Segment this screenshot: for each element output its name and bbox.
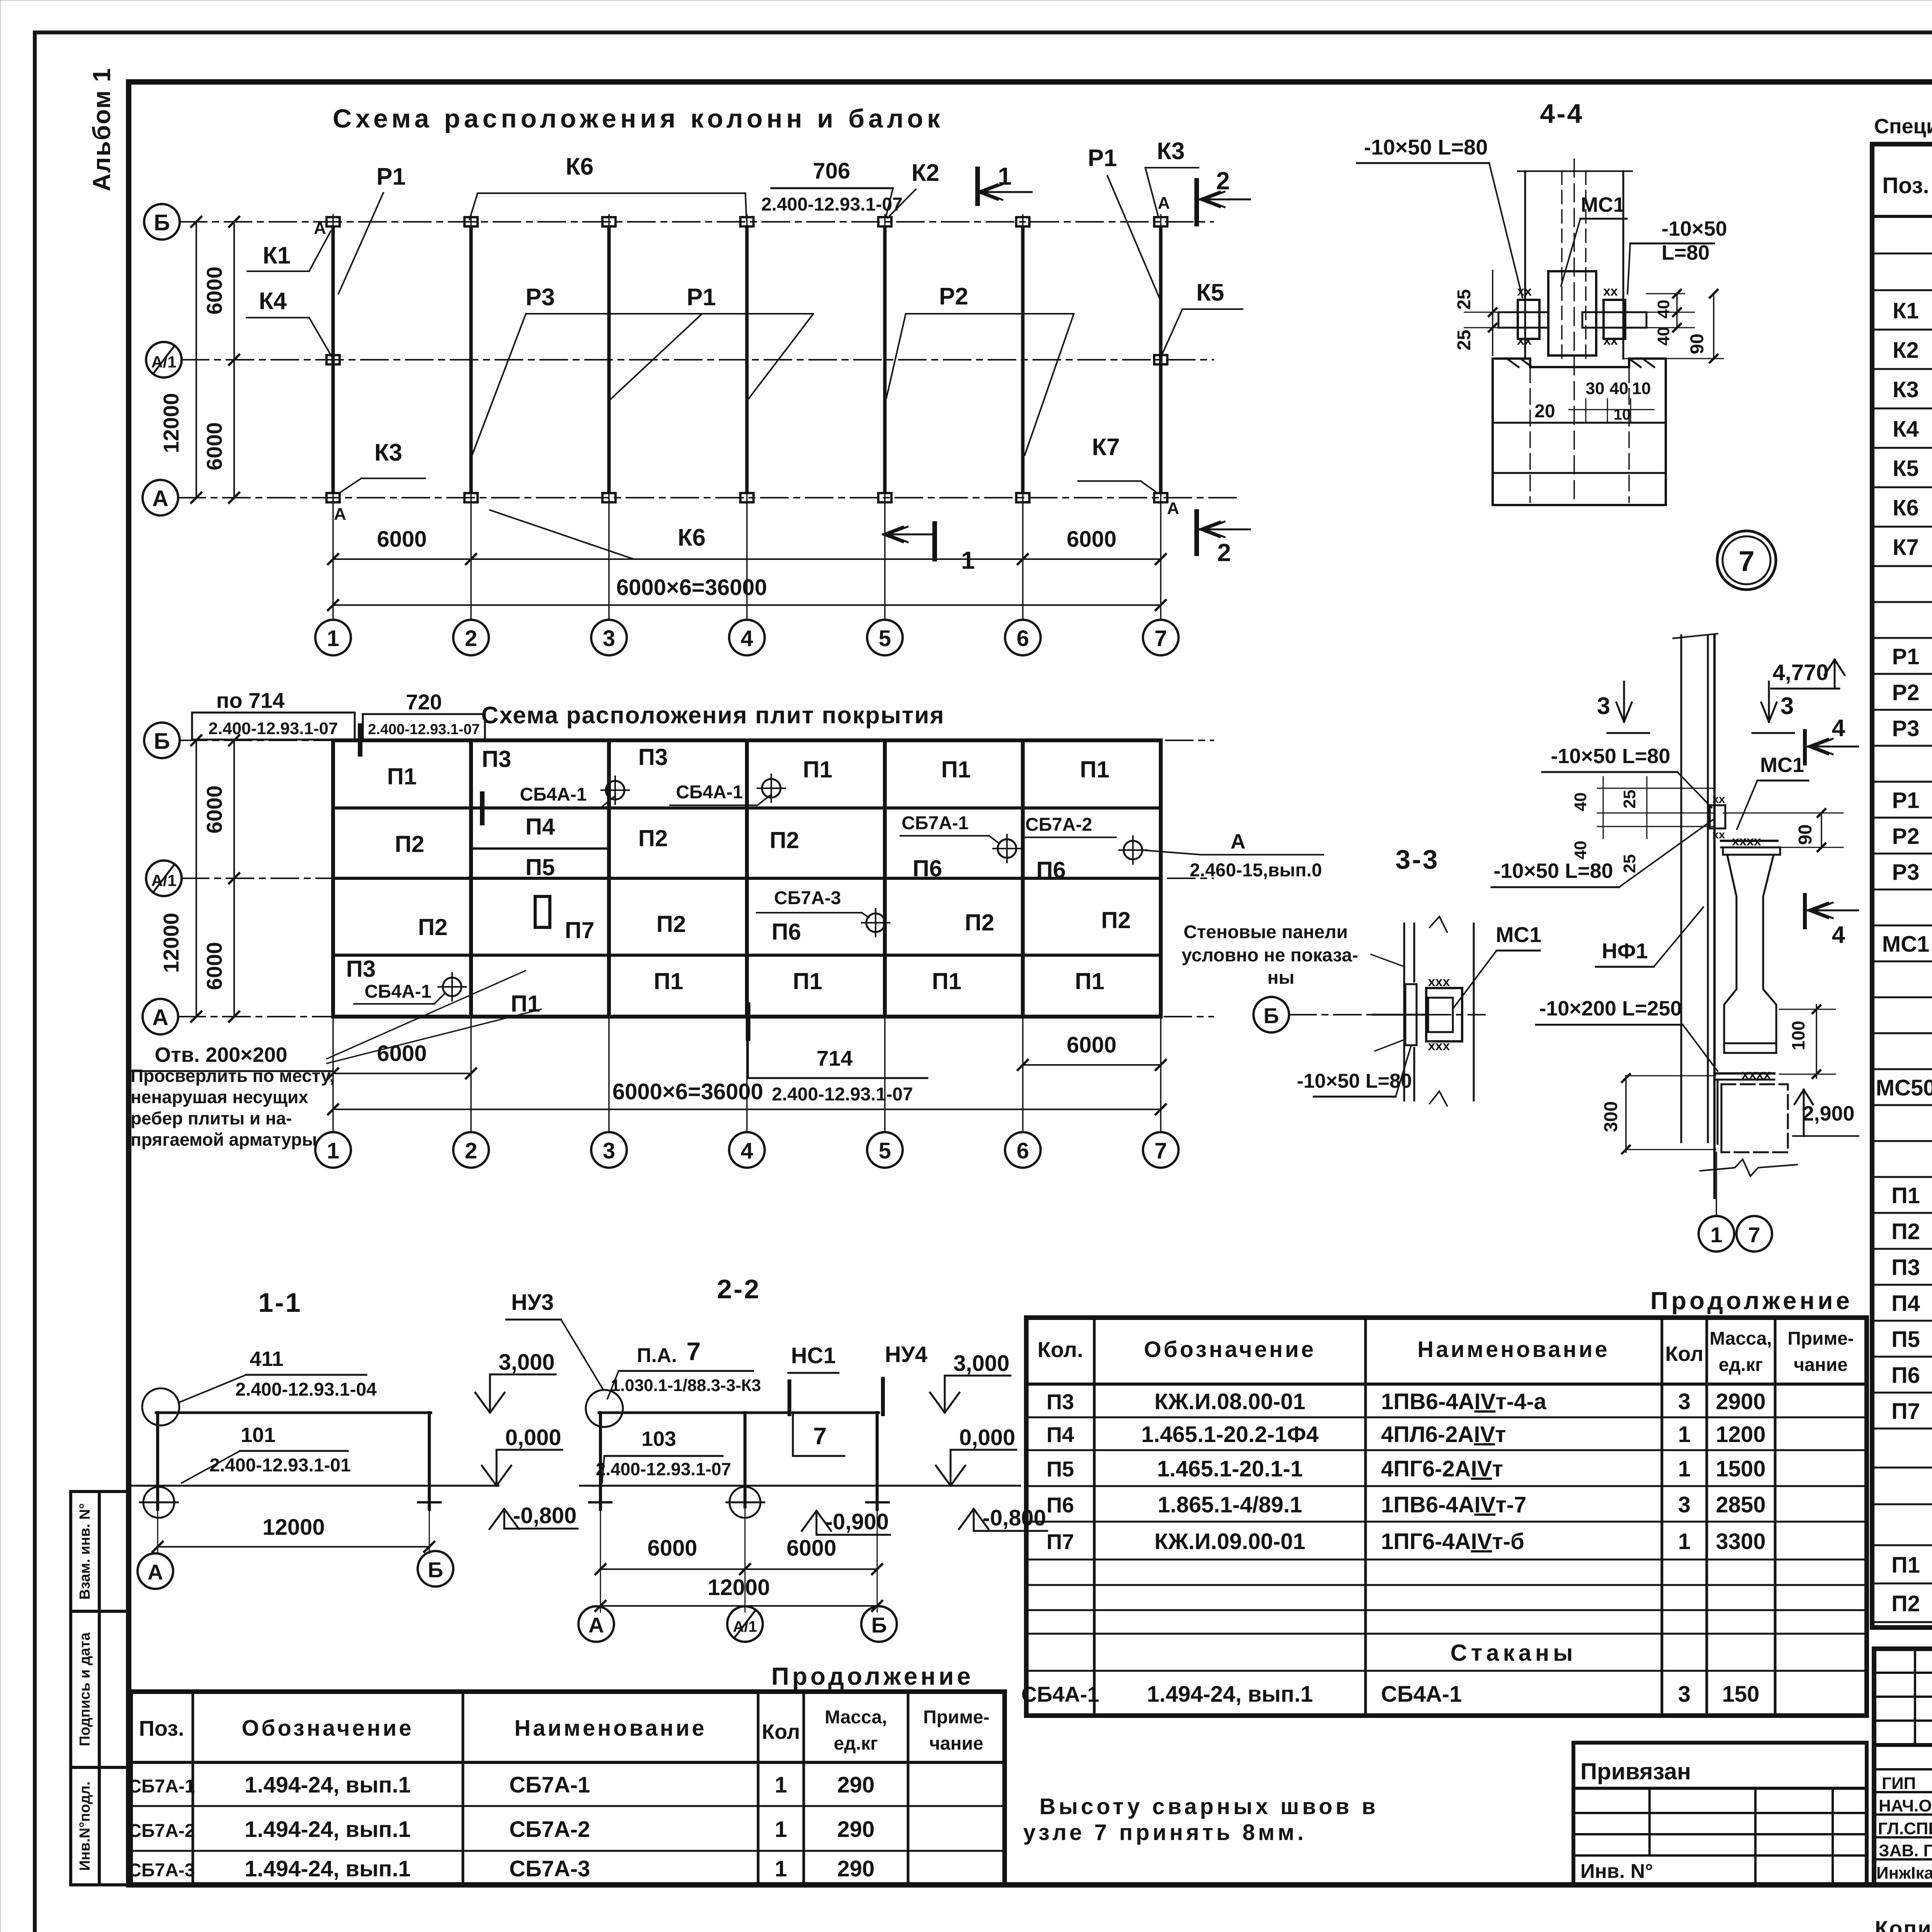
svg-text:Приме-: Приме- xyxy=(1787,1328,1854,1349)
svg-text:Р2: Р2 xyxy=(1892,680,1920,705)
svg-text:6000: 6000 xyxy=(377,527,427,552)
svg-text:-10×50 L=80: -10×50 L=80 xyxy=(1364,135,1488,159)
svg-text:40: 40 xyxy=(1571,793,1590,811)
svg-text:П1: П1 xyxy=(941,757,971,782)
plan2 axis line А/1 xyxy=(182,878,1213,879)
3-3 wall panel verticals xyxy=(1403,923,1405,1100)
svg-text:МС1: МС1 xyxy=(1882,932,1929,957)
svg-text:L=80: L=80 xyxy=(1662,241,1710,264)
left margin stamp boxes xyxy=(71,1492,128,1885)
svg-text:Высоту сварных швов в: Высоту сварных швов в xyxy=(1039,1794,1379,1819)
svg-text:2.400-12.93.1-07: 2.400-12.93.1-07 xyxy=(761,194,903,215)
svg-text:6: 6 xyxy=(1017,1138,1029,1163)
svg-text:30: 30 xyxy=(1586,379,1605,398)
svg-text:10: 10 xyxy=(1614,406,1631,423)
svg-text:Поз.: Поз. xyxy=(1882,173,1929,198)
svg-text:СБ4А-1: СБ4А-1 xyxy=(520,784,587,805)
svg-text:условно не показа-: условно не показа- xyxy=(1182,945,1358,966)
svg-text:П3: П3 xyxy=(482,746,512,772)
upper small grid xyxy=(1874,1672,1932,1674)
1-1 axis circle А xyxy=(157,1547,158,1553)
svg-text:Масса,: Масса, xyxy=(1709,1328,1772,1349)
svg-text:Просверлить по месту,: Просверлить по месту, xyxy=(131,1066,334,1086)
svg-text:П2: П2 xyxy=(1101,907,1131,933)
svg-text:Р3: Р3 xyxy=(1892,860,1920,885)
svg-text:40: 40 xyxy=(1654,300,1673,319)
svg-text:5: 5 xyxy=(879,1138,891,1163)
svg-text:25: 25 xyxy=(1620,854,1639,873)
svg-text:Б: Б xyxy=(871,1613,887,1637)
svg-text:СБ7А-1: СБ7А-1 xyxy=(128,1776,195,1797)
svg-text:СБ7А-2: СБ7А-2 xyxy=(1025,815,1092,835)
svg-text:П3: П3 xyxy=(638,744,668,770)
svg-text:3,000: 3,000 xyxy=(953,1351,1009,1376)
svg-text:МС50: МС50 xyxy=(1876,1075,1932,1100)
svg-text:1ПВ6-4АIVт-4-а: 1ПВ6-4АIVт-4-а xyxy=(1381,1389,1547,1414)
plan2 axis circle Б xyxy=(144,723,180,758)
svg-text:чание: чание xyxy=(929,1733,983,1754)
svg-text:К7: К7 xyxy=(1092,434,1120,461)
svg-text:Инв.N°подл.: Инв.N°подл. xyxy=(77,1781,93,1871)
plan2 axis circle А xyxy=(143,999,178,1034)
svg-text:2.400-12.93.1-07: 2.400-12.93.1-07 xyxy=(596,1459,731,1479)
target symbol СБ7А-1 xyxy=(998,839,1016,858)
svg-text:А: А xyxy=(1167,499,1179,518)
svg-text:2.460-15,вып.0: 2.460-15,вып.0 xyxy=(1190,860,1322,881)
svg-text:xxx: xxx xyxy=(1428,1039,1450,1053)
svg-text:40: 40 xyxy=(1610,379,1629,398)
svg-text:1: 1 xyxy=(1678,1529,1690,1554)
svg-text:40: 40 xyxy=(1654,327,1673,346)
svg-text:xxx: xxx xyxy=(1428,975,1450,989)
svg-text:1.494-24, вып.1: 1.494-24, вып.1 xyxy=(245,1772,411,1798)
hole squares 200x200 xyxy=(526,965,539,978)
svg-text:Продолжение: Продолжение xyxy=(771,1662,974,1690)
top break mark xyxy=(1673,634,1718,638)
svg-text:3-3: 3-3 xyxy=(1395,844,1439,874)
svg-text:150: 150 xyxy=(1722,1682,1760,1707)
4-4 right plate xyxy=(1604,300,1625,339)
svg-text:6000: 6000 xyxy=(377,1041,427,1066)
4-4 right bar xyxy=(1582,312,1646,328)
3-3 break marks xyxy=(1430,917,1447,932)
left dimension lines 6000/6000/12000 xyxy=(233,222,235,498)
svg-text:7: 7 xyxy=(1748,1223,1760,1247)
plan2 axis line А xyxy=(178,1016,1213,1017)
svg-text:3: 3 xyxy=(1678,1682,1690,1707)
svg-text:П2: П2 xyxy=(418,914,448,940)
4-4 column sides xyxy=(1524,171,1526,359)
svg-text:7: 7 xyxy=(1155,1138,1167,1163)
svg-text:Б: Б xyxy=(428,1558,443,1582)
svg-text:А: А xyxy=(152,486,168,511)
beam НФ1 profile xyxy=(1723,847,1780,855)
center table frame xyxy=(1026,1318,1867,1716)
svg-text:4,770: 4,770 xyxy=(1772,660,1828,685)
svg-text:1500: 1500 xyxy=(1716,1456,1765,1481)
svg-text:Р2: Р2 xyxy=(939,283,968,310)
2-2 elevation 3.000 xyxy=(944,1376,946,1410)
svg-text:П6: П6 xyxy=(772,919,801,945)
svg-text:Обозначение: Обозначение xyxy=(241,1716,413,1741)
svg-text:К1: К1 xyxy=(263,242,291,269)
svg-text:xx: xx xyxy=(1603,333,1618,348)
svg-text:6000×6=36000: 6000×6=36000 xyxy=(616,575,767,600)
section mark 1 (top) xyxy=(975,169,980,204)
svg-text:КЖ.И.09.00-01: КЖ.И.09.00-01 xyxy=(1155,1529,1306,1554)
svg-text:МС1: МС1 xyxy=(1496,922,1541,947)
svg-text:-10×50 L=80: -10×50 L=80 xyxy=(1551,745,1670,768)
svg-text:290: 290 xyxy=(837,1772,875,1798)
4-4 left dims 25/25 xyxy=(1492,270,1493,355)
svg-text:xxxx: xxxx xyxy=(1732,834,1761,849)
svg-text:6000: 6000 xyxy=(1066,527,1116,552)
svg-text:4: 4 xyxy=(1832,922,1845,948)
4-4 left plate xyxy=(1518,300,1539,339)
axis circle А/1 xyxy=(146,342,182,378)
svg-text:К4: К4 xyxy=(1893,417,1919,442)
target symbol СБ4А-1 (row4) xyxy=(443,978,461,996)
svg-text:К4: К4 xyxy=(259,288,287,315)
svg-text:2: 2 xyxy=(1217,539,1231,566)
svg-text:П3: П3 xyxy=(1046,1389,1074,1414)
svg-text:по 714: по 714 xyxy=(216,688,284,713)
svg-text:ребер плиты и на-: ребер плиты и на- xyxy=(131,1108,292,1128)
svg-text:706: 706 xyxy=(813,158,850,184)
svg-text:П4: П4 xyxy=(1891,1291,1920,1316)
svg-text:3300: 3300 xyxy=(1716,1529,1765,1554)
svg-text:СБ7А-3: СБ7А-3 xyxy=(128,1860,195,1881)
svg-text:2.400-12.93.1-04: 2.400-12.93.1-04 xyxy=(235,1379,377,1400)
svg-text:П1: П1 xyxy=(1075,968,1105,994)
svg-text:П2: П2 xyxy=(1891,1591,1920,1616)
svg-text:П5: П5 xyxy=(526,854,555,880)
svg-text:П2: П2 xyxy=(638,825,668,851)
4-4 central plate МС1 xyxy=(1548,271,1596,355)
2-2 base circle marker xyxy=(730,1487,760,1518)
svg-text:А: А xyxy=(588,1613,604,1637)
svg-text:прягаемой арматуры: прягаемой арматуры xyxy=(131,1129,317,1150)
svg-text:Спецификация к схемам располож: Спецификация к схемам расположения колон… xyxy=(1874,115,1932,138)
svg-text:6000: 6000 xyxy=(786,1536,836,1561)
svg-text:1200: 1200 xyxy=(1716,1422,1765,1447)
4-4 foundation dashed column xyxy=(1529,367,1531,502)
svg-text:12000: 12000 xyxy=(262,1515,325,1540)
svg-text:Масса,: Масса, xyxy=(825,1707,887,1728)
svg-text:СБ7А-2: СБ7А-2 xyxy=(128,1821,195,1841)
svg-text:6000: 6000 xyxy=(202,422,226,471)
svg-text:1.494-24, вып.1: 1.494-24, вып.1 xyxy=(245,1817,411,1842)
svg-text:К3: К3 xyxy=(374,439,402,466)
svg-text:2,900: 2,900 xyxy=(1802,1102,1854,1125)
svg-text:90: 90 xyxy=(1687,333,1708,354)
3-3 axis circle Б xyxy=(1253,997,1289,1032)
svg-text:П3: П3 xyxy=(1891,1255,1920,1280)
svg-text:СБ4А-1: СБ4А-1 xyxy=(676,782,743,803)
svg-text:-0,900: -0,900 xyxy=(825,1509,889,1534)
svg-text:-0,800: -0,800 xyxy=(983,1505,1046,1531)
2-2 elevation -0.900 xyxy=(816,1514,818,1535)
svg-text:СБ7А-1: СБ7А-1 xyxy=(901,813,968,833)
svg-text:6: 6 xyxy=(1017,626,1029,651)
svg-text:П5: П5 xyxy=(1046,1457,1074,1481)
leader to А 2.460-15,вып.0 xyxy=(1142,850,1201,855)
node circles 1 and 7 xyxy=(1699,1216,1734,1252)
svg-text:СБ4А-1: СБ4А-1 xyxy=(1381,1682,1462,1707)
svg-text:4ПГ6-2АIVт: 4ПГ6-2АIVт xyxy=(1381,1456,1503,1481)
axis circle Б xyxy=(144,204,180,240)
plan2 dim line 6000 (1-2) and 6000 (6-7) xyxy=(333,1073,471,1074)
svg-text:К6: К6 xyxy=(1893,495,1919,520)
svg-text:КЖ.И.08.00-01: КЖ.И.08.00-01 xyxy=(1155,1389,1306,1414)
1-1 elevation 3.000 xyxy=(489,1374,491,1410)
4-4 center axis dashed xyxy=(1573,159,1575,502)
svg-text:1: 1 xyxy=(961,546,975,574)
dimension line 6000x6=36000 xyxy=(333,604,1161,606)
svg-text:1ПВ6-4АIVт-7: 1ПВ6-4АIVт-7 xyxy=(1381,1492,1526,1517)
svg-text:П1: П1 xyxy=(1891,1183,1920,1208)
svg-text:-10×50 L=80: -10×50 L=80 xyxy=(1493,859,1613,883)
svg-text:2: 2 xyxy=(465,626,477,651)
svg-text:МС1: МС1 xyxy=(1760,753,1804,777)
svg-text:ГИП: ГИП xyxy=(1882,1774,1916,1793)
svg-text:К3: К3 xyxy=(1157,138,1185,165)
svg-text:6000: 6000 xyxy=(202,942,226,990)
svg-text:СБ7А-3: СБ7А-3 xyxy=(774,888,841,908)
svg-text:1: 1 xyxy=(1710,1223,1722,1247)
grid lines 1..7 xyxy=(332,215,334,620)
svg-text:xx: xx xyxy=(1712,793,1725,806)
1-1 node circle xyxy=(142,1388,179,1425)
svg-text:714: 714 xyxy=(816,1046,852,1070)
svg-text:4: 4 xyxy=(741,1138,753,1163)
svg-text:П7: П7 xyxy=(1046,1529,1074,1554)
svg-text:3: 3 xyxy=(1781,693,1794,719)
svg-text:1: 1 xyxy=(1678,1422,1690,1447)
plan2 left dims xyxy=(233,740,235,1017)
svg-text:xxxx: xxxx xyxy=(1742,1067,1771,1082)
bottom dimension line 6000 + 6000 xyxy=(333,558,1161,560)
plan2 grid extension lines down to circles xyxy=(332,1017,334,1132)
svg-text:1: 1 xyxy=(327,1138,339,1163)
svg-text:Обозначение: Обозначение xyxy=(1144,1337,1316,1362)
spec table rows xyxy=(1872,253,1932,255)
svg-text:2.400-12.93.1-07: 2.400-12.93.1-07 xyxy=(208,719,338,738)
4-4 foundation recess hatch xyxy=(1507,359,1519,367)
svg-text:Кол.: Кол. xyxy=(1037,1337,1083,1362)
svg-text:6000: 6000 xyxy=(202,786,226,834)
beam seat plate xyxy=(1721,840,1777,842)
svg-text:ны: ны xyxy=(1267,968,1294,988)
4-4 left bar xyxy=(1498,312,1548,328)
svg-text:НФ1: НФ1 xyxy=(1602,939,1648,963)
svg-text:П5: П5 xyxy=(1891,1327,1920,1352)
svg-text:П2: П2 xyxy=(656,911,686,937)
2-2 elevation 0.000 xyxy=(950,1450,952,1483)
section mark 4 (bottom) xyxy=(1803,895,1807,927)
svg-text:ед.кг: ед.кг xyxy=(834,1733,878,1754)
svg-text:ненарушая несущих: ненарушая несущих xyxy=(131,1087,308,1107)
svg-text:Приме-: Приме- xyxy=(923,1707,990,1728)
svg-text:90: 90 xyxy=(1795,824,1816,845)
column К5 square on А/1 xyxy=(1154,355,1167,364)
svg-text:ИнжIкат.: ИнжIкат. xyxy=(1876,1864,1932,1883)
svg-text:1.494-24, вып.1: 1.494-24, вып.1 xyxy=(245,1856,411,1881)
svg-text:40: 40 xyxy=(1571,841,1590,860)
bottom-left table frame xyxy=(131,1692,1005,1885)
lower angle connection xyxy=(1716,1072,1774,1075)
svg-text:А: А xyxy=(1158,194,1170,213)
section mark 2 (bottom right) xyxy=(1194,512,1199,554)
svg-text:К6: К6 xyxy=(566,153,594,180)
svg-text:0,000: 0,000 xyxy=(505,1425,561,1450)
svg-text:К5: К5 xyxy=(1196,279,1224,306)
svg-text:П6: П6 xyxy=(1046,1493,1074,1517)
beam bottom flange xyxy=(1724,1043,1776,1053)
svg-text:НАЧ.ОТД.: НАЧ.ОТД. xyxy=(1879,1796,1932,1815)
1-1 roof line xyxy=(156,1412,431,1414)
svg-text:Продолжение: Продолжение xyxy=(1650,1287,1853,1315)
svg-text:25: 25 xyxy=(1620,790,1639,809)
spec table frame xyxy=(1872,144,1932,1628)
svg-text:П7: П7 xyxy=(565,917,595,943)
svg-text:1-1: 1-1 xyxy=(258,1287,302,1318)
svg-text:290: 290 xyxy=(837,1817,875,1842)
1-1 columns xyxy=(156,1413,159,1509)
1-1 elevation -0.800 xyxy=(503,1512,505,1529)
title block frame xyxy=(1874,1649,1932,1885)
svg-text:П2: П2 xyxy=(395,831,425,857)
svg-text:25: 25 xyxy=(1454,330,1475,350)
svg-text:-10×50: -10×50 xyxy=(1662,217,1727,240)
axis circle А xyxy=(143,480,178,515)
svg-text:-10×200 L=250: -10×200 L=250 xyxy=(1539,997,1682,1020)
svg-text:Б: Б xyxy=(154,210,170,235)
column squares at axis intersections xyxy=(327,217,340,226)
svg-text:П2: П2 xyxy=(1891,1219,1920,1244)
svg-text:Р1: Р1 xyxy=(1892,788,1920,813)
svg-text:К3: К3 xyxy=(1893,377,1919,402)
svg-text:П1: П1 xyxy=(793,968,823,994)
svg-text:А: А xyxy=(152,1005,168,1030)
svg-text:Б: Б xyxy=(154,729,170,754)
svg-text:3: 3 xyxy=(603,1138,615,1163)
svg-text:Отв. 200×200: Отв. 200×200 xyxy=(155,1043,287,1066)
svg-text:А: А xyxy=(314,219,326,238)
svg-text:0,000: 0,000 xyxy=(959,1425,1015,1450)
Привязан box xyxy=(1573,1743,1867,1885)
wall panel verticals xyxy=(1680,635,1682,1142)
svg-text:12000: 12000 xyxy=(159,913,183,973)
svg-text:П1: П1 xyxy=(1080,757,1110,782)
svg-text:10: 10 xyxy=(1632,379,1651,398)
svg-text:xx: xx xyxy=(1517,284,1532,299)
svg-text:xx: xx xyxy=(1517,333,1532,348)
svg-text:7: 7 xyxy=(813,1423,827,1450)
svg-text:К2: К2 xyxy=(1893,338,1919,363)
1-1 elevation 0.000 xyxy=(496,1450,498,1483)
svg-text:1: 1 xyxy=(775,1856,787,1881)
svg-text:Р3: Р3 xyxy=(1892,716,1920,741)
2-2 axis circles xyxy=(600,1606,601,1606)
2-2 dim 12000 xyxy=(600,1605,877,1607)
svg-text:П1: П1 xyxy=(1891,1553,1920,1578)
1-1 ground line 0.000 xyxy=(130,1485,498,1487)
svg-text:Поз.: Поз. xyxy=(139,1716,184,1740)
svg-text:1.030.1-1/88.3-3-К3: 1.030.1-1/88.3-3-К3 xyxy=(611,1376,761,1395)
svg-text:П6: П6 xyxy=(1036,857,1066,883)
svg-text:Кол: Кол xyxy=(762,1720,800,1743)
lower block (wall beam) xyxy=(1721,1084,1788,1152)
svg-text:7: 7 xyxy=(1738,545,1754,577)
svg-text:Привязан: Привязан xyxy=(1580,1759,1691,1784)
2-2 elevation -0.800 xyxy=(973,1512,975,1531)
svg-text:2: 2 xyxy=(465,1138,477,1163)
svg-text:1.465.1-20.2-1Ф4: 1.465.1-20.2-1Ф4 xyxy=(1141,1422,1318,1447)
target symbol СБ7А-2 xyxy=(1124,841,1142,859)
svg-text:1: 1 xyxy=(775,1817,787,1842)
svg-text:П7: П7 xyxy=(1891,1399,1920,1424)
4-4 right dims 40/40/90 xyxy=(1646,293,1685,294)
svg-text:НС1: НС1 xyxy=(791,1343,836,1368)
column К4 square on А/1 xyxy=(327,355,340,364)
small hatched rect П7 marker xyxy=(535,896,550,927)
svg-text:НУ3: НУ3 xyxy=(511,1290,554,1315)
svg-text:Б: Б xyxy=(1264,1003,1279,1028)
svg-text:К6: К6 xyxy=(678,524,706,551)
svg-text:МС1: МС1 xyxy=(1581,193,1625,216)
svg-text:12000: 12000 xyxy=(159,393,183,453)
bottom-left table rows xyxy=(131,1805,1005,1807)
svg-text:4: 4 xyxy=(1832,715,1845,742)
slab grid outline xyxy=(333,740,1161,1017)
svg-text:2900: 2900 xyxy=(1716,1389,1765,1414)
svg-text:НУ4: НУ4 xyxy=(885,1342,927,1367)
svg-text:ГЛ.СПЕЦ.: ГЛ.СПЕЦ. xyxy=(1878,1819,1932,1838)
2-2 node circle xyxy=(586,1390,623,1427)
svg-text:П6: П6 xyxy=(1891,1363,1920,1388)
plan2 dim line 6000x6=36000 xyxy=(333,1109,1161,1110)
svg-text:720: 720 xyxy=(406,690,442,714)
svg-text:К2: К2 xyxy=(912,160,939,186)
svg-text:Схема расположения колонн и ба: Схема расположения колонн и балок xyxy=(333,104,944,133)
node circle 7 (detail 4-4) xyxy=(1717,531,1776,590)
2-2 ground line xyxy=(580,1485,1020,1487)
svg-text:20: 20 xyxy=(1534,401,1555,422)
svg-text:6000: 6000 xyxy=(202,267,226,315)
plan2 axis circle А/1 xyxy=(146,861,182,896)
3-3 МС1 connection xyxy=(1426,988,1462,1041)
leader ticks from boxed fractions xyxy=(358,726,362,754)
svg-text:Подпись и дата: Подпись и дата xyxy=(77,1632,93,1746)
svg-text:xx: xx xyxy=(1603,284,1618,299)
svg-text:2.400-12.93.1-01: 2.400-12.93.1-01 xyxy=(209,1455,351,1476)
svg-text:П2: П2 xyxy=(965,910,995,935)
axis line А/1 xyxy=(182,359,1213,361)
svg-text:4ПЛ6-2АIVт: 4ПЛ6-2АIVт xyxy=(1381,1422,1506,1447)
svg-text:СБ7А-3: СБ7А-3 xyxy=(509,1856,590,1881)
svg-text:П6: П6 xyxy=(913,855,942,881)
svg-text:СБ4А-1: СБ4А-1 xyxy=(364,981,431,1002)
svg-text:СБ4А-1: СБ4А-1 xyxy=(1021,1682,1099,1706)
svg-text:7: 7 xyxy=(1155,626,1167,651)
svg-text:ед.кг: ед.кг xyxy=(1719,1355,1763,1375)
section mark 4 (top) xyxy=(1803,731,1807,764)
svg-text:Р1: Р1 xyxy=(687,284,716,311)
svg-text:Р3: Р3 xyxy=(526,284,555,311)
svg-text:2.400-12.93.1-07: 2.400-12.93.1-07 xyxy=(772,1084,913,1105)
2-2 columns xyxy=(599,1413,602,1509)
